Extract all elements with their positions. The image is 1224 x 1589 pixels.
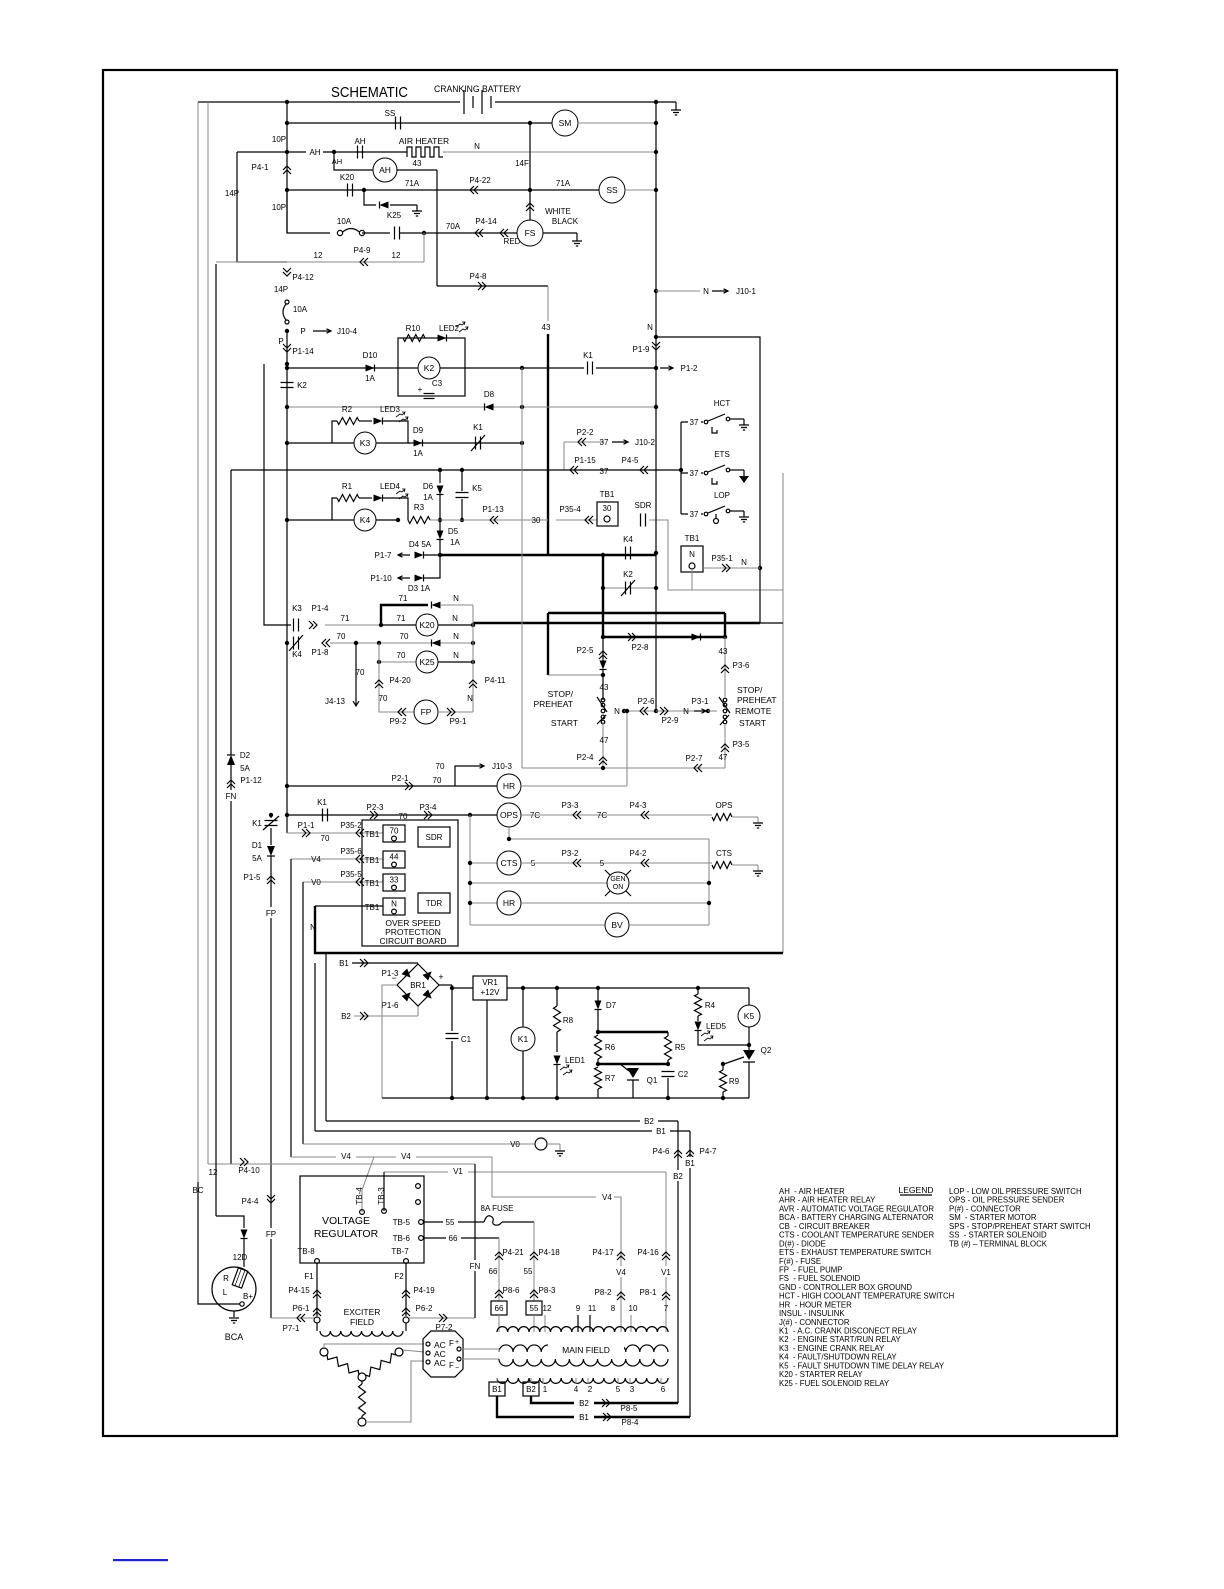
node junction K2 row left [285,366,289,370]
svg-text:F: F [449,1339,454,1348]
label N K25 [453,651,459,660]
label N heater [474,142,480,151]
svg-text:AH: AH [379,165,391,175]
wire wire 55 row [424,1221,484,1223]
svg-text:55: 55 [524,1267,533,1276]
label FP b [263,1228,278,1239]
label EXCITER FIELD [344,1307,381,1327]
connector mark P4-16 mark [662,1252,670,1260]
relay coil K25 [416,651,438,673]
led LED3 [374,418,383,425]
connector mark P4-3 mark [641,811,649,819]
wire wire FN drop [474,1164,476,1318]
svg-text:1: 1 [543,1385,548,1394]
label 71 a [341,614,350,623]
terminal TB-6 [393,1234,424,1243]
label P8-5 [621,1404,638,1413]
connector mark P4-22 [470,186,478,194]
svg-text:N: N [703,287,709,296]
wire wire x522 trunk [521,368,523,768]
node junction 43 sps [601,673,605,677]
wire wire pin 2 [587,1378,589,1384]
node junction N sps [622,709,626,713]
svg-text:P4-10: P4-10 [238,1166,260,1175]
label P6-1 [293,1304,310,1313]
label D8 [484,390,495,399]
wire wire GENON right [629,882,709,884]
svg-text:SS - STARTER SOLENOID: SS - STARTER SOLENOID [949,1231,1047,1240]
label P1-9 [633,345,650,354]
connector mark P4-14 mark [475,229,483,237]
label V4 d [613,1266,630,1277]
label OPS sender [716,801,733,810]
svg-text:2: 2 [588,1385,593,1394]
label LED5 [706,1022,727,1031]
label BCA [225,1332,244,1342]
connector mark P3-6 mark [721,665,729,673]
svg-text:P4-15: P4-15 [288,1286,310,1295]
wire wire 37 stub ETS [681,472,703,474]
label 14P b [274,285,288,294]
wire wire x627 link [626,711,628,786]
wire wire 43 drop black [547,334,549,555]
wire wire B1 row [352,962,418,964]
label P4-2 [630,849,647,858]
wire wire HR row [287,785,497,787]
label P3-1 [692,697,709,706]
svg-text:+12V: +12V [481,988,501,997]
wire wire OPS right [521,814,712,816]
label P4-11 [485,676,506,685]
svg-text:43: 43 [542,323,551,332]
resistor CTS sender [712,862,732,869]
connector mark P2-3 mark [370,811,378,819]
wire wire R5 a [667,1032,669,1036]
node junction K20 branch [362,188,366,192]
terminal TB-5 [393,1218,424,1227]
main field row A [497,1327,668,1332]
node junction P1-2 [654,366,658,370]
label 70A [446,222,461,231]
arrow J10-4 arrow [313,329,331,333]
wire AC line 1 [324,1344,424,1348]
connector mark P35-2 mark [356,829,364,837]
svg-text:D(#) - DIODE: D(#) - DIODE [779,1239,826,1248]
wire wire R1-LED4 [359,497,372,499]
label N K20 [452,614,458,623]
insulink B1 [489,1382,505,1396]
insulink B2 [523,1382,539,1396]
label P4-18 [538,1248,560,1257]
contact K5 cap [456,493,469,498]
label 47 a [600,736,609,745]
svg-text:P1-1: P1-1 [298,821,315,830]
svg-text:7C: 7C [597,811,607,820]
wire J10-3 branch [455,766,468,786]
connector mark P2-4 mark [599,757,607,765]
label P2-3 [367,803,384,812]
svg-text:1A: 1A [413,449,423,458]
node junction OPS left [285,813,289,817]
label TB1 30 [600,490,615,499]
svg-text:N: N [647,323,653,332]
label P1-14 [292,347,314,356]
contact K4 b [626,547,631,560]
LED3 rays [396,412,408,422]
connector mark P3-2 mark [573,859,581,867]
wire wire 55 row b [502,1221,534,1223]
wire AH branch [334,152,373,170]
wire wire P2-2 h [564,441,604,443]
label MAIN FIELD [548,1342,624,1356]
node junction Q2 top [747,1043,751,1047]
wire wire V1 TB3 link [383,1172,385,1211]
svg-text:AH: AH [309,148,320,157]
label 70 J103 [436,762,445,771]
label P4-21 [502,1248,524,1257]
wire wire BV right [629,924,709,926]
svg-text:B1: B1 [579,1413,589,1422]
relay coil K4 [354,509,376,531]
label P4-7 [700,1147,717,1156]
label D7 [606,1001,617,1010]
label 12D [233,1253,248,1262]
wire wire OPS gnd stub [757,817,759,823]
label STOP/PREHEAT REMOTE [735,685,777,728]
wire wire P down [286,331,288,364]
label D1 [252,841,263,850]
label 10P lower [272,203,286,212]
battery voltage BV [605,913,629,937]
node junction D4 [438,553,442,557]
svg-text:66: 66 [489,1267,498,1276]
node junction R3 out [396,518,400,522]
svg-text:L: L [223,1288,228,1297]
LED5 rays [701,1031,713,1041]
svg-text:F: F [449,1361,454,1370]
svg-text:N: N [689,550,695,559]
svg-text:43: 43 [413,159,422,168]
label P4-5 [622,456,639,465]
svg-text:P2-5: P2-5 [577,646,594,655]
wire 12 to D5 [216,1216,244,1228]
bridge rectifier BR1 [391,964,443,1006]
wire wire V0 row [303,1143,534,1145]
label B1 drop [682,1157,698,1168]
wire wire FN trunk b [230,765,232,1164]
diode BR1 diode c [401,989,413,1001]
svg-text:P9-2: P9-2 [390,717,407,726]
wire wire R6 b [597,1059,599,1064]
svg-text:70: 70 [397,651,406,660]
wire B1 trunk [314,963,316,1131]
svg-text:AH: AH [354,137,365,146]
wire wire 66 pin [498,1315,500,1332]
label 5 a [531,859,536,868]
node junction K4 left [285,518,289,522]
label N 71 [453,594,459,603]
svg-text:71: 71 [397,614,406,623]
label P35-1 [711,554,733,563]
label 3 mf [630,1385,635,1394]
wire wire D4 to junction [423,554,440,556]
svg-text:K2: K2 [424,363,435,373]
svg-text:J10-3: J10-3 [492,762,513,771]
label P1-7 [375,551,392,560]
wire wire WHITE [529,190,531,221]
svg-text:43: 43 [600,683,609,692]
terminal block TB1-N [365,898,405,915]
node junction P row [285,329,289,333]
wire wire 70 gray [330,642,473,644]
node junction N trunk sps [654,709,658,713]
label 43 b [719,647,728,656]
connector mark P35-6 mark [356,855,364,863]
label LOP [714,491,730,500]
wire wire N row ext [760,622,783,624]
connector mark P4-15 mark [313,1290,321,1298]
svg-text:P: P [300,327,305,336]
svg-text:P2-7: P2-7 [686,754,703,763]
svg-text:START: START [551,718,578,728]
label 9 mf [576,1304,581,1313]
svg-text:F2: F2 [394,1272,404,1281]
label P8-1 [640,1288,657,1297]
svg-text:R8: R8 [563,1016,574,1025]
label LED2 [439,324,460,333]
wire wire AH row [287,151,407,153]
contact AH [358,146,363,159]
label K2 contact b [623,570,633,579]
svg-text:V0: V0 [311,878,321,887]
connector mark P8-5 mark [602,1399,610,1407]
svg-text:−: − [391,973,396,983]
svg-text:FN: FN [226,792,237,801]
svg-text:P6-2: P6-2 [416,1304,433,1313]
wire wire K1d b [270,828,272,845]
svg-text:TB1: TB1 [685,534,700,543]
node junction sps remote [706,709,710,713]
svg-text:SCHEMATIC: SCHEMATIC [331,85,408,101]
node junction SS row left [285,121,289,125]
svg-text:P8-5: P8-5 [621,1404,638,1413]
svg-text:TB-8: TB-8 [297,1247,315,1256]
arrow P1-2 arrow [660,366,673,370]
stator winding b [365,1354,396,1377]
label 7C a [530,811,540,820]
connector mark P8-3 mark [530,1290,538,1298]
label N overspeed [310,923,316,932]
svg-text:P3-3: P3-3 [562,801,579,810]
node junction HR2 left [468,901,472,905]
node junction K25 left [377,660,381,664]
node junction R9 bot [721,1096,725,1100]
svg-text:P4-19: P4-19 [413,1286,435,1295]
wire 71 up [381,605,428,625]
svg-text:AH - AIR HEATER: AH - AIR HEATER [779,1187,845,1196]
diode BR1 diode b [422,968,434,980]
label P2-4 [577,753,594,762]
wire wire 37 row [231,469,681,471]
label K4 contact c [292,650,302,659]
connector mark P7-2 mark [439,1314,447,1322]
wire wire K4 row [287,519,398,521]
wire wire P2-5 link2 [602,669,604,700]
svg-text:GEN: GEN [610,876,625,883]
wire wire HCT gnd [730,418,744,420]
svg-text:7: 7 [664,1304,669,1313]
label P3-4 [420,803,437,812]
label R7 [605,1074,616,1083]
label D6 1A [423,493,433,502]
label B1 br [339,959,349,968]
svg-text:CIRCUIT BOARD: CIRCUIT BOARD [380,936,447,946]
terminal exciter right [403,1317,409,1323]
label J10-1 [736,287,757,296]
svg-text:K4 - FAULT/SHUTDOWN RELAY: K4 - FAULT/SHUTDOWN RELAY [779,1353,897,1362]
resistor R2 [337,418,359,425]
label D3 1A [408,584,431,593]
svg-text:P4-11: P4-11 [485,676,506,685]
label 55 b [524,1267,533,1276]
wire wire AH coil to 43 [397,169,437,171]
label P4-8 [470,272,487,281]
wire wire VR1 ground leg [486,1000,488,1098]
node junction 43 right [723,635,727,639]
svg-text:K5 - FAULT SHUTDOWN TIME DELA: K5 - FAULT SHUTDOWN TIME DELAY RELAY [779,1361,945,1370]
label 7 mf [664,1304,669,1313]
connector mark P1-6 mark [360,1012,368,1020]
wire wire pin 4 [575,1378,577,1384]
connector mark P3-4 mark [424,811,432,819]
wire wire 10P trunk [286,102,288,233]
svg-text:44: 44 [390,853,399,862]
svg-text:REMOTE: REMOTE [735,706,772,716]
svg-text:P1-7: P1-7 [375,551,392,560]
svg-text:K20 - STARTER RELAY: K20 - STARTER RELAY [779,1370,863,1379]
svg-text:K3: K3 [292,604,302,613]
starter motor SM [552,110,578,136]
svg-text:V1: V1 [661,1268,671,1277]
svg-text:D3 1A: D3 1A [408,584,431,593]
svg-text:HCT: HCT [714,399,731,408]
svg-text:B+: B+ [243,1292,253,1301]
wire B1 bottom row [497,1396,690,1417]
connector mark P1-5 mark [267,876,275,884]
label 70 b [400,632,409,641]
label RED [504,237,521,246]
node junction N rail AH [654,150,658,154]
svg-text:P4-5: P4-5 [622,456,639,465]
svg-text:70A: 70A [446,222,461,231]
coolant temp sender circle CTS [497,851,521,875]
label 71A left [405,179,420,188]
svg-text:GND - CONTROLLER BOX GROUND: GND - CONTROLLER BOX GROUND [779,1283,912,1292]
svg-text:LOP - LOW OIL PRESSURE SWITCH: LOP - LOW OIL PRESSURE SWITCH [949,1187,1082,1196]
fuel solenoid FS [517,220,543,246]
svg-text:K25 - FUEL SOLENOID RELAY: K25 - FUEL SOLENOID RELAY [779,1379,890,1388]
svg-text:5: 5 [600,859,605,868]
svg-text:V4: V4 [311,855,321,864]
svg-text:D6: D6 [423,482,434,491]
svg-text:TB-6: TB-6 [393,1234,411,1243]
label 37 LOP [688,509,701,519]
wire wire N trunk [655,102,657,711]
svg-text:47: 47 [719,753,728,762]
hour meter HR b [497,891,521,915]
label 10A cb [293,305,308,314]
ground G-CTS [753,871,763,876]
LED1 rays [560,1065,572,1075]
svg-text:70: 70 [356,668,365,677]
label 70 d [379,694,388,703]
svg-text:B2: B2 [579,1399,589,1408]
svg-text:J(#) - CONNECTOR: J(#) - CONNECTOR [779,1318,850,1327]
svg-text:P8-6: P8-6 [503,1286,520,1295]
label TDR box [426,899,443,908]
label CTS sender [716,849,732,858]
connector mark P4-14 mark2 [500,229,508,237]
node junction K2b r [654,586,658,590]
label P4-20 [389,676,411,685]
svg-text:R1: R1 [342,482,353,491]
svg-text:SM - STARTER MOTOR: SM - STARTER MOTOR [949,1213,1037,1222]
label 70 tb [321,834,330,843]
wire wire D6 to row [439,494,441,520]
wire wire R5 b [667,1060,669,1064]
node junction 14F mid [528,188,532,192]
svg-text:K1: K1 [518,1034,529,1044]
wire K20 diode branch [364,190,376,205]
label D6 [423,482,434,491]
LED2 rays [456,322,468,332]
label 43 mid [542,323,551,332]
wire wire P7-2 row [409,1317,475,1319]
wire wire F minus [461,1358,499,1360]
svg-text:6: 6 [661,1385,666,1394]
resistor R8 [554,1006,561,1032]
svg-text:K4: K4 [360,515,371,525]
label 10 mf [629,1304,638,1313]
label P6-2 [416,1304,433,1313]
node junction K4c left [285,641,289,645]
diode D4 [415,552,424,559]
arrow P3-1 arrow [694,709,706,713]
wire wire K25 row [379,661,416,663]
svg-text:D2: D2 [240,751,251,760]
svg-text:V4: V4 [602,1193,612,1202]
svg-text:C3: C3 [432,379,443,388]
label C3 plus [418,385,423,394]
node junction D7 top [596,986,600,990]
svg-text:P2-4: P2-4 [577,753,594,762]
svg-text:CTS: CTS [716,849,732,858]
wire wire F plus [461,1348,499,1350]
label 8 mf [611,1304,616,1313]
wire wire CTS gnd [732,864,758,866]
wire wire P2-5 link [602,637,604,661]
connector mark P2-9 mark [660,707,668,715]
wire wire P7-1 row [271,1317,314,1319]
lamp GEN ON [605,870,631,896]
svg-text:OPS: OPS [716,801,733,810]
svg-text:N: N [614,707,620,716]
svg-text:K2: K2 [623,570,633,579]
resistor R7 [595,1067,602,1089]
svg-text:P4-7: P4-7 [700,1147,717,1156]
label P1-6 [382,1001,399,1010]
wire wire pin 12 [544,1315,546,1332]
